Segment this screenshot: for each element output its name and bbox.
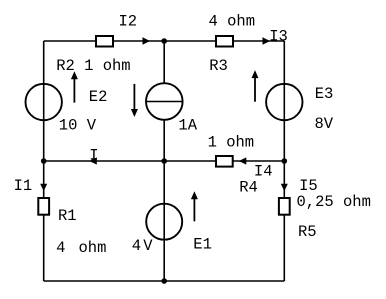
arrow E2 [71,71,78,102]
svg-text:I5: I5 [299,177,318,195]
svg-text:I2: I2 [119,13,138,31]
svg-text:ohm: ohm [79,239,107,257]
svg-text:4: 4 [132,237,141,255]
wire left vertical [43,41,45,281]
svg-text:V: V [143,237,153,255]
arrow 1A direction [131,84,138,117]
wire middle vertical [163,41,165,281]
svg-text:R1: R1 [58,207,77,225]
svg-text:1 ohm: 1 ohm [208,134,255,152]
svg-text:E3: E3 [315,85,334,103]
resistor R5 [279,198,290,215]
wire right vertical [283,41,285,281]
svg-text:E2: E2 [89,88,108,106]
node dot right middle [282,158,288,164]
svg-text:8V: 8V [315,115,334,133]
resistor R3 [216,36,233,47]
arrowhead I1 on left wire [40,184,47,192]
voltage source E3 8V [266,84,302,120]
wire top horizontal [44,40,285,42]
svg-text:0,25 ohm: 0,25 ohm [297,193,371,211]
svg-text:E1: E1 [193,236,212,254]
arrow E1 [191,191,198,221]
arrowhead I3 on top wire [263,37,271,45]
arrowhead I on middle wire [89,157,97,164]
svg-text:R5: R5 [298,223,317,241]
svg-text:4: 4 [56,239,65,257]
svg-text:I1: I1 [14,177,33,195]
resistor R2 [96,36,113,47]
resistor R4 [216,156,233,167]
wire middle horizontal [44,160,285,162]
svg-text:I3: I3 [269,27,288,45]
arrowhead I4 on middle wire [239,157,247,164]
node dot bottom middle [161,278,167,284]
svg-text:I: I [89,147,98,165]
current source 1A [146,83,183,120]
svg-text:R3: R3 [209,57,228,75]
svg-text:10 V: 10 V [59,117,97,135]
voltage source E2 10V [26,84,62,120]
node dot center [161,158,167,164]
svg-text:4 ohm: 4 ohm [209,12,256,30]
svg-text:1A: 1A [178,116,197,134]
resistor R1 [38,198,49,215]
svg-text:R4: R4 [239,179,258,197]
arrowhead I2 on top wire [143,37,151,45]
arrowhead I5 on right wire [281,184,288,192]
arrow E3 [252,70,259,102]
svg-text:R2 1 ohm: R2 1 ohm [56,57,130,75]
node dot left middle [41,158,47,164]
voltage source E1 4V [146,204,182,240]
wire bottom horizontal [44,280,285,282]
node dot top middle [161,38,167,44]
